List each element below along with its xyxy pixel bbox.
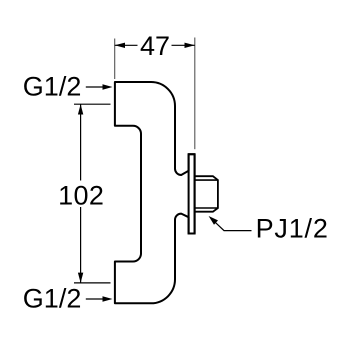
wall flange plate: [189, 154, 195, 233]
dimension line 102: [80, 104, 82, 283]
svg-text:PJ1/2: PJ1/2: [256, 214, 329, 244]
nut flat line top: [196, 179, 218, 181]
white gap behind 102 text: [58, 181, 104, 208]
nut flat line bottom: [196, 207, 218, 209]
arrowhead right of dim 47: [185, 43, 195, 48]
svg-text:47: 47: [140, 31, 170, 61]
leader arrow bottom G1/2: [86, 298, 104, 300]
hex nut PJ1/2 fitting: [196, 176, 218, 212]
body outline (bracket fitting): [115, 82, 195, 303]
leader line PJ1/2: [211, 219, 251, 231]
extension line top of dim 102: [74, 103, 111, 105]
arrowhead top of dim 102: [78, 104, 83, 114]
arrowhead left of dim 47: [115, 43, 125, 48]
extension line bottom of dim 102: [74, 282, 111, 284]
leader arrow top G1/2: [86, 86, 104, 88]
extension line left of dim 47: [114, 39, 116, 80]
arrowhead PJ1/2: [209, 216, 218, 225]
svg-text:102: 102: [58, 180, 104, 210]
white gap behind 47 text: [138, 33, 172, 57]
svg-text:G1/2: G1/2: [23, 284, 82, 314]
extension line right of dim 47: [194, 38, 196, 150]
arrowhead bottom of dim 102: [78, 273, 83, 283]
svg-text:G1/2: G1/2: [23, 71, 82, 101]
dimension line 47: [115, 44, 195, 46]
